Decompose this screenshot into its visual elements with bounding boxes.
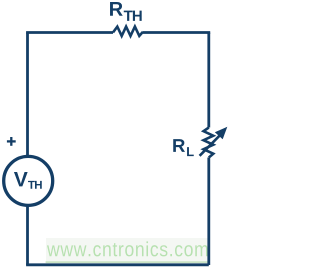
- arrow shaft of variable resistor R_L: [200, 135, 220, 156]
- wire: top-left horizontal segment: [28, 31, 114, 32]
- label V_TH (TH subscript): [28, 181, 42, 189]
- wire: right vertical top: [207, 33, 210, 128]
- watermark text www.cntronics.com: [47, 241, 208, 256]
- arrowhead of variable resistor R_L arrow: [215, 127, 228, 139]
- label R_L (R): [173, 139, 185, 152]
- label V_TH (V): [14, 172, 28, 186]
- wire: bottom horizontal: [26, 263, 209, 266]
- resistor R_L zigzag (variable load): [204, 128, 214, 158]
- wire: left vertical (top node to source +): [26, 33, 29, 158]
- polarity + sign of voltage source V_TH: [7, 137, 16, 146]
- wire: right vertical bottom: [207, 158, 210, 266]
- wire: left vertical (source - to bottom node): [26, 205, 29, 265]
- label R_TH (R): [110, 2, 123, 16]
- voltage source V_TH circle: [4, 156, 53, 205]
- wire: top-right horizontal segment: [143, 33, 209, 35]
- watermark background box: [46, 238, 208, 264]
- label R_L (L subscript): [187, 147, 194, 156]
- resistor R_TH zigzag: [113, 27, 143, 36]
- label R_TH (TH subscript): [124, 11, 142, 21]
- watermark underline (green rule): [46, 261, 208, 263]
